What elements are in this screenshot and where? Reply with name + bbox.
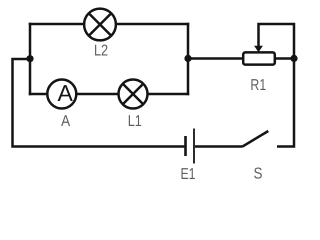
- svg-text:R1: R1: [250, 77, 266, 94]
- switch S blade: [242, 131, 268, 147]
- svg-text:L2: L2: [94, 43, 108, 60]
- wire: right outer run down to switch fixed contact: [277, 59, 294, 147]
- rheostat wiper arrowhead: [254, 46, 263, 53]
- lamp L2: [84, 9, 116, 41]
- battery E1: short plate (negative): [184, 136, 187, 156]
- wire: top branch: [29, 23, 190, 26]
- wire: rheostat wiper bypass (up, over, down): [259, 24, 295, 59]
- svg-text:A: A: [58, 80, 74, 106]
- wire: junction row to rheostat left terminal: [188, 57, 243, 60]
- node: right junction: [184, 55, 191, 62]
- svg-text:S: S: [254, 166, 263, 183]
- lamp L1: [119, 80, 148, 109]
- battery E1: long plate (positive): [193, 129, 195, 164]
- wire: rheostat right terminal to right junction: [275, 57, 294, 60]
- ammeter A: [47, 80, 76, 109]
- wire: right parallel connector: [187, 23, 190, 96]
- node: rheostat output junction: [290, 55, 297, 62]
- node: left junction: [26, 55, 33, 62]
- svg-text:A: A: [61, 113, 70, 130]
- wire: left outer run (tap to bottom, to battery negative): [13, 59, 185, 147]
- svg-text:E1: E1: [180, 166, 195, 183]
- wire: battery positive to switch pivot: [195, 145, 242, 148]
- resistor R1 (rheostat body): [243, 52, 275, 64]
- svg-text:L1: L1: [128, 113, 142, 130]
- wire: middle branch: [29, 93, 190, 96]
- wire: left parallel connector: [29, 23, 32, 96]
